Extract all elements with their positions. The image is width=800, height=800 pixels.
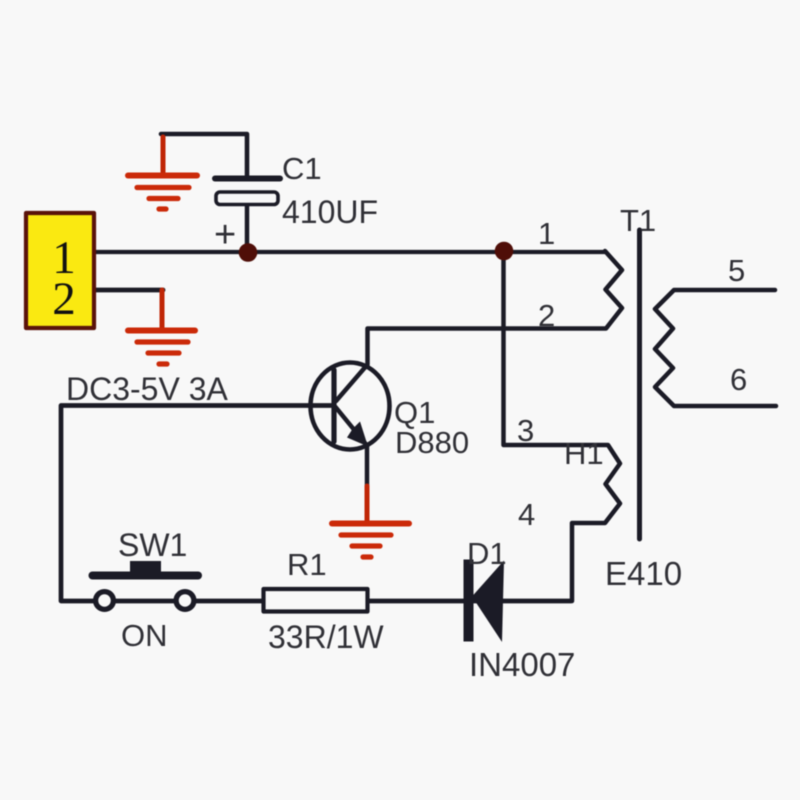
svg-text:D880: D880 bbox=[395, 425, 469, 460]
svg-text:D1: D1 bbox=[467, 536, 507, 571]
svg-text:33R/1W: 33R/1W bbox=[268, 619, 384, 655]
svg-text:R1: R1 bbox=[287, 547, 327, 582]
svg-text:410UF: 410UF bbox=[282, 194, 378, 230]
svg-text:C1: C1 bbox=[282, 151, 322, 186]
svg-text:DC3-5V 3A: DC3-5V 3A bbox=[66, 371, 229, 407]
svg-text:+: + bbox=[214, 214, 236, 256]
svg-text:2: 2 bbox=[538, 298, 555, 333]
svg-text:T1: T1 bbox=[620, 203, 656, 238]
svg-text:4: 4 bbox=[518, 497, 535, 532]
svg-text:1: 1 bbox=[538, 216, 555, 251]
svg-text:E410: E410 bbox=[605, 555, 682, 592]
svg-text:SW1: SW1 bbox=[118, 527, 187, 563]
svg-text:ON: ON bbox=[121, 618, 168, 653]
svg-text:3: 3 bbox=[517, 413, 534, 448]
svg-text:IN4007: IN4007 bbox=[469, 646, 575, 683]
svg-text:6: 6 bbox=[730, 362, 747, 397]
svg-text:5: 5 bbox=[728, 253, 745, 288]
svg-text:2: 2 bbox=[52, 273, 76, 325]
svg-text:H1: H1 bbox=[564, 436, 604, 471]
